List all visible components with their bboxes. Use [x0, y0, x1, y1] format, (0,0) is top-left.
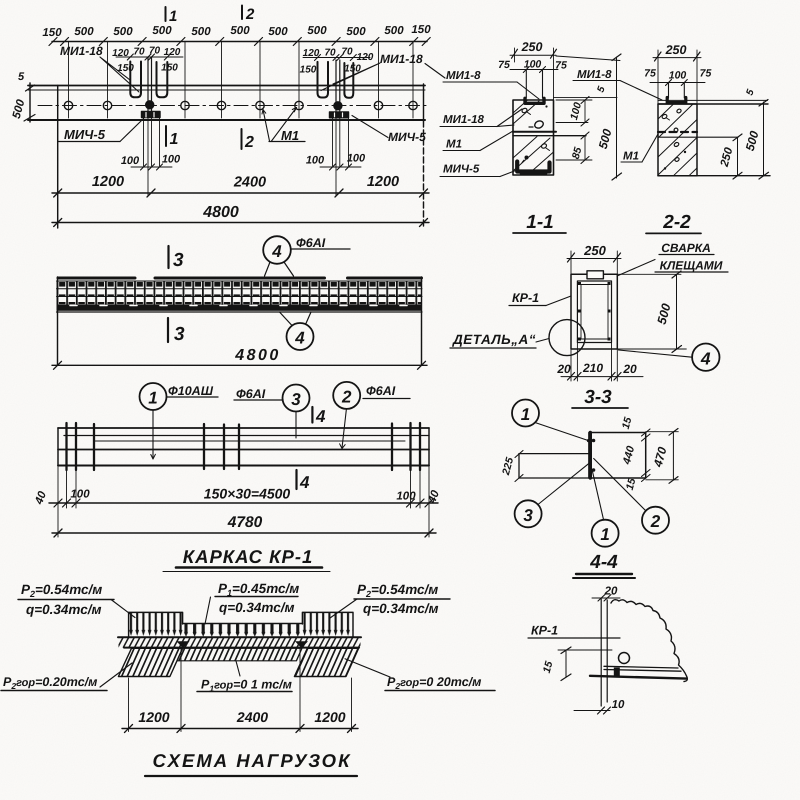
rebar circle: [619, 653, 630, 664]
svg-text:1200: 1200: [314, 709, 345, 725]
svg-text:МИ1-8: МИ1-8: [446, 70, 481, 82]
callout circle 1: [140, 383, 167, 410]
dim 15 left: [565, 650, 567, 677]
right load block: [302, 612, 353, 637]
svg-text:1: 1: [600, 525, 609, 544]
anchor loop MI1-18 group2 right: [344, 63, 353, 98]
svg-text:70: 70: [324, 48, 336, 59]
rebar dots: [661, 114, 667, 120]
left load block: [129, 612, 183, 637]
section body rect: [513, 100, 554, 175]
bolt M1 group1 head: [146, 101, 154, 109]
svg-text:20: 20: [622, 362, 637, 376]
line to 500 dim: [556, 56, 620, 61]
svg-text:2400: 2400: [233, 175, 266, 191]
svg-text:120: 120: [303, 48, 320, 59]
beam top line: [28, 85, 425, 87]
leader P2 right: [330, 599, 357, 618]
svg-text:500: 500: [307, 25, 327, 37]
svg-text:500: 500: [346, 26, 366, 38]
svg-text:500: 500: [74, 26, 94, 38]
svg-text:4: 4: [294, 329, 305, 348]
svg-text:МИ1-18: МИ1-18: [60, 44, 103, 58]
callout circle 3: [283, 385, 310, 412]
M1 dashed band: [658, 131, 697, 133]
svg-text:100: 100: [70, 489, 90, 501]
embedded plate on top: [587, 271, 603, 279]
hatch: [658, 105, 697, 176]
anchor loop MI1-18 group1 left: [130, 62, 141, 98]
bottom line: [658, 175, 770, 177]
leader legs circle4 top: [265, 262, 294, 276]
section body rect: [658, 104, 697, 176]
M1 band lines: [513, 131, 556, 133]
svg-text:100: 100: [524, 59, 542, 71]
grid verticals through bolt holes: [69, 42, 414, 119]
callout circle 2: [642, 507, 669, 534]
svg-text:МИ1-18: МИ1-18: [443, 114, 484, 126]
leader circle2: [342, 409, 346, 448]
leader to circle 4: [619, 350, 693, 357]
svg-text:500: 500: [191, 26, 211, 38]
dim 470: [646, 432, 679, 480]
svg-text:МИЧ-5: МИЧ-5: [443, 164, 480, 176]
svg-text:70: 70: [133, 47, 145, 58]
upper hatch: [513, 101, 539, 125]
svg-text:2: 2: [244, 134, 254, 151]
svg-text:Ф10АШ: Ф10АШ: [168, 384, 214, 398]
svg-text:75: 75: [555, 60, 567, 72]
anchor square: [614, 668, 620, 677]
mid ref line: [658, 136, 738, 138]
lower horiz-load parallelogram left: [118, 648, 182, 676]
dim ticks: [49, 38, 430, 46]
svg-text:100: 100: [396, 491, 416, 503]
leader c1: [535, 423, 589, 441]
stirrups left: [67, 423, 95, 470]
svg-text:КАРКАС КР-1: КАРКАС КР-1: [183, 546, 314, 567]
rebar dots lower: [541, 143, 548, 149]
leader P2gor right: [345, 659, 390, 677]
dim 500 vertical: [763, 102, 765, 176]
dim labels 150/500 row: [42, 24, 431, 39]
svg-text:120: 120: [164, 47, 181, 58]
svg-text:1200: 1200: [92, 174, 124, 190]
lower horiz-load parallelogram right: [294, 648, 358, 676]
extension right end dashed: [423, 121, 425, 228]
svg-text:МИ1-8: МИ1-8: [577, 69, 612, 81]
svg-text:СХЕМА НАГРУЗОК: СХЕМА НАГРУЗОК: [153, 750, 352, 771]
svg-text:10: 10: [612, 699, 625, 711]
plate MI4-5 group1: [142, 112, 161, 118]
dim line 1200/2400/1200: [52, 192, 429, 194]
svg-text:3-3: 3-3: [584, 387, 612, 408]
dim 100/100 group1: [131, 166, 172, 168]
group2 anchor dim line: [303, 57, 370, 59]
dim 75/100/75: [650, 82, 705, 84]
svg-text:2400: 2400: [236, 709, 268, 725]
plate rect: [589, 433, 646, 479]
anchor MI1-8 body: [667, 98, 686, 103]
svg-text:100: 100: [347, 153, 366, 165]
svg-text:210: 210: [582, 361, 603, 375]
thick left edge: [589, 433, 592, 479]
mesh bottom thick band: [57, 305, 423, 311]
svg-text:20: 20: [556, 362, 571, 376]
svg-text:МИЧ-5: МИЧ-5: [388, 130, 426, 144]
svg-text:100: 100: [306, 155, 325, 167]
callout circle 1 bottom: [592, 520, 619, 547]
section cut mark 2 bottom: [241, 129, 243, 149]
leader P2gor left: [100, 663, 132, 687]
svg-text:Р2гор=0 20тс/м: Р2гор=0 20тс/м: [387, 675, 481, 691]
svg-text:120: 120: [112, 48, 129, 59]
svg-text:q=0.34тс/м: q=0.34тс/м: [26, 602, 101, 617]
svg-text:500: 500: [230, 25, 250, 37]
svg-text:500: 500: [113, 26, 133, 38]
svg-text:МИЧ-5: МИЧ-5: [64, 127, 106, 142]
svg-text:Ф6АI: Ф6АI: [296, 236, 326, 250]
section cut mark 1 top: [165, 7, 167, 21]
bolt holes M1: [64, 101, 417, 109]
leader circle1: [152, 410, 154, 459]
svg-text:1: 1: [169, 8, 177, 25]
inner cage rect: [577, 281, 611, 343]
lower hatch: [513, 137, 554, 175]
svg-text:75: 75: [644, 68, 656, 80]
label P2 right: [357, 582, 438, 616]
outer body rect: [571, 274, 617, 349]
right dims refs: [556, 100, 592, 160]
svg-text:3: 3: [291, 390, 301, 409]
svg-text:100: 100: [121, 155, 140, 167]
section cut mark 4 bottom: [295, 470, 297, 489]
svg-text:75: 75: [498, 59, 510, 71]
svg-text:1200: 1200: [367, 174, 399, 190]
svg-text:4: 4: [271, 242, 282, 261]
bolt group1 lower extensions: [144, 111, 160, 196]
cage end edges: [58, 428, 429, 466]
svg-text:70: 70: [149, 46, 161, 57]
leader P2 left: [111, 600, 135, 618]
anchor MI1-8 legs: [669, 83, 685, 99]
svg-text:4780: 4780: [227, 514, 263, 531]
bolt M1 group2 stem: [336, 60, 340, 111]
svg-text:150×30=4500: 150×30=4500: [204, 486, 291, 502]
svg-text:3: 3: [173, 250, 184, 271]
svg-text:q=0.34тс/м: q=0.34тс/м: [363, 601, 438, 616]
leader P1gor mid: [236, 661, 240, 676]
support triangle right: [295, 641, 308, 648]
svg-text:2: 2: [341, 387, 352, 406]
beam topping line: [28, 89, 425, 91]
callout circle 1 top: [512, 400, 539, 427]
svg-text:4: 4: [315, 407, 326, 426]
leader MI1-18 left: [100, 57, 139, 92]
svg-text:МИ1-18: МИ1-18: [380, 52, 423, 66]
topping line: [554, 97, 618, 99]
anchor MI1-8 body: [525, 98, 544, 103]
svg-text:120: 120: [357, 52, 374, 63]
dim 75/100/75: [510, 69, 558, 71]
anchor loop MI1-18 group1 right: [157, 62, 168, 97]
callout circle 4 top: [263, 236, 291, 264]
svg-text:4-4: 4-4: [589, 552, 618, 573]
svg-text:1: 1: [148, 389, 157, 408]
svg-text:4: 4: [700, 349, 711, 369]
dim extensions: [129, 649, 352, 732]
bolt M1 group1 stem: [148, 57, 152, 111]
beam band bottom line: [124, 647, 359, 649]
svg-text:М1: М1: [623, 151, 639, 163]
svg-text:500: 500: [268, 26, 288, 38]
section cut mark 3 top: [167, 246, 169, 268]
concrete blob outline: [611, 600, 687, 682]
leader M1 V: [263, 108, 297, 142]
beam band diagonal hatch: [119, 637, 361, 647]
svg-text:4800: 4800: [234, 347, 281, 364]
svg-text:150: 150: [300, 65, 317, 76]
svg-text:Р2гор=0.20тс/м: Р2гор=0.20тс/м: [3, 675, 97, 691]
svg-text:Ф6АI: Ф6АI: [366, 384, 396, 398]
svg-text:4800: 4800: [202, 204, 239, 221]
callout circle 4: [692, 344, 719, 371]
leader MI4-5 left: [120, 119, 144, 142]
svg-text:q=0.34тс/м: q=0.34тс/м: [219, 600, 294, 615]
body left edge: [57, 277, 59, 365]
leader legs circle4 bottom: [280, 312, 312, 326]
svg-text:1: 1: [170, 131, 179, 148]
mesh tabs: [58, 277, 422, 280]
svg-text:4: 4: [299, 473, 310, 492]
left bar: [519, 454, 589, 478]
section cut mark 2 top: [241, 6, 243, 20]
svg-text:250: 250: [583, 243, 606, 258]
beam bottom line: [28, 119, 425, 121]
group1 anchor dim line: [116, 56, 183, 58]
beam right edge: [423, 84, 425, 121]
beam left edge: [57, 86, 59, 121]
leader MI1-18 right: [321, 63, 380, 91]
dim line 4780: [52, 532, 436, 534]
svg-text:1200: 1200: [138, 709, 169, 725]
svg-text:2: 2: [650, 512, 661, 531]
svg-text:1-1: 1-1: [526, 212, 553, 233]
svg-text:75: 75: [700, 68, 712, 80]
bottom dims 20/210/20: [571, 343, 617, 382]
topping double line: [658, 99, 768, 101]
left vertical dim 500: [29, 83, 31, 122]
dim line 4800: [52, 364, 427, 366]
extension left end: [57, 120, 59, 228]
dim extensions: [58, 466, 429, 538]
svg-text:150: 150: [42, 27, 62, 39]
svg-text:20: 20: [604, 586, 618, 598]
label P1 mid: [218, 581, 299, 615]
sheet verticals: [601, 599, 607, 706]
svg-text:100: 100: [162, 154, 181, 166]
anchor MI1-8 legs: [526, 70, 542, 99]
dim line 40/100/4500/100/40: [49, 502, 438, 504]
svg-text:2: 2: [245, 6, 255, 23]
lower horiz-load mid band: [177, 648, 302, 661]
cage corner bars: [578, 282, 611, 341]
svg-text:2-2: 2-2: [662, 212, 691, 233]
svg-text:Ф6АI: Ф6АI: [236, 387, 266, 401]
svg-text:100: 100: [669, 70, 687, 82]
centre dash-dot line: [38, 105, 430, 107]
section cut mark 4 top: [311, 407, 313, 423]
svg-text:М1: М1: [446, 139, 462, 151]
svg-text:250: 250: [665, 43, 687, 57]
bolt group2 lower extensions: [333, 111, 349, 196]
bolt M1 group2 head: [334, 102, 342, 110]
callout circle 4 bottom: [287, 323, 314, 350]
beam band top line: [118, 636, 361, 638]
hole O: [534, 120, 545, 130]
dim line 1200/2400/1200: [122, 728, 358, 730]
label svarka kleschami: [660, 241, 723, 273]
section cut mark 3 bottom: [167, 318, 169, 342]
callout circle 2: [333, 382, 360, 409]
section cut mark 1 bottom: [165, 126, 167, 146]
support triangle left: [177, 641, 190, 648]
longitudinal bars: [58, 427, 429, 429]
svg-text:3: 3: [523, 506, 533, 525]
svg-text:5: 5: [18, 71, 25, 83]
dim 500 right: [616, 57, 618, 178]
svg-text:3: 3: [174, 324, 185, 345]
stirrups right: [392, 423, 420, 470]
leader to MI1-8 end: [425, 64, 445, 79]
dim 500 right: [617, 274, 686, 349]
rebar dot upper: [521, 107, 528, 113]
leader circle3: [295, 412, 297, 439]
dims 15/440/15: [642, 429, 651, 482]
body right edge: [421, 277, 423, 365]
svg-text:1: 1: [521, 405, 530, 424]
leader MI4-5 right: [352, 116, 388, 138]
svg-text:500: 500: [384, 25, 404, 37]
mesh band grid: [57, 281, 423, 305]
svg-text:150: 150: [411, 24, 431, 36]
anchor loop MI1-18 group2 left: [318, 62, 329, 98]
dim 250 vertical: [737, 137, 739, 176]
svg-text:М1: М1: [281, 128, 299, 143]
svg-text:СВАРКА: СВАРКА: [661, 241, 711, 255]
bottom plate MI4-5: [517, 162, 549, 172]
top dimension line: [52, 41, 427, 43]
svg-text:500: 500: [152, 25, 172, 37]
svg-text:ДЕТАЛЬ„А“: ДЕТАЛЬ„А“: [452, 332, 536, 347]
plate MI4-5 group2: [330, 112, 349, 118]
svg-text:70: 70: [341, 47, 353, 58]
middle load strip: [183, 624, 303, 638]
base plate lines: [604, 666, 681, 671]
svg-text:КР-1: КР-1: [531, 624, 558, 638]
label P2 left: [21, 582, 102, 617]
callout circle 3: [515, 500, 542, 527]
corner bars: [592, 439, 596, 443]
svg-text:150: 150: [161, 63, 178, 74]
detail A circle: [549, 320, 585, 356]
stirrups middle: [204, 424, 239, 469]
svg-text:КЛЕЩАМИ: КЛЕЩАМИ: [660, 259, 723, 273]
leader P1 mid: [205, 597, 211, 624]
svg-text:250: 250: [521, 40, 543, 54]
dim 100/100 group2: [320, 166, 361, 168]
svg-text:КР-1: КР-1: [512, 291, 539, 305]
dim line 4800: [52, 222, 429, 224]
